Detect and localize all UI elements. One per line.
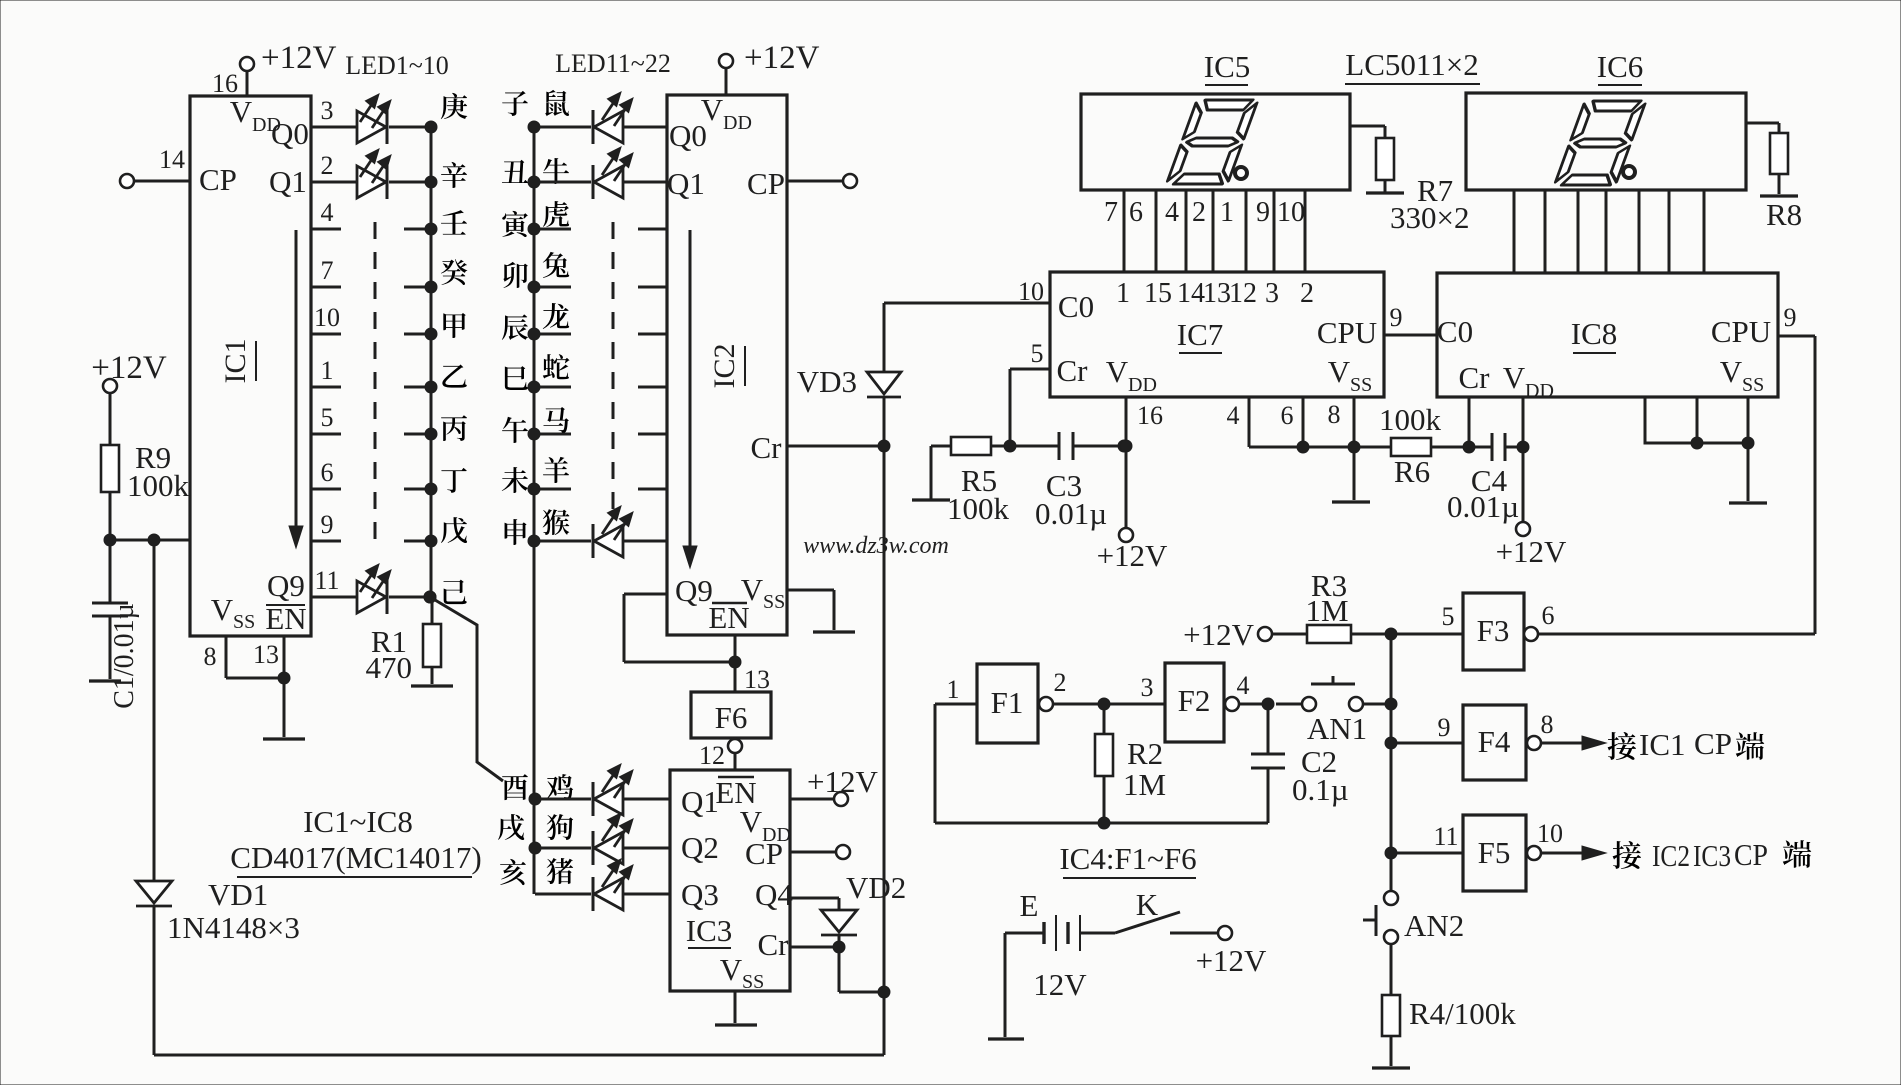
svg-text:4: 4	[1237, 671, 1250, 700]
node R9/C1 junction	[104, 534, 116, 546]
wire IC6 segment 4	[1605, 190, 1608, 273]
svg-text:13: 13	[1203, 278, 1231, 309]
wire IC2 Vss to ground	[787, 589, 834, 592]
power terminal +12V for IC2	[719, 54, 733, 68]
svg-text:V: V	[1720, 354, 1743, 389]
diode VD2	[821, 910, 857, 932]
svg-text:F5: F5	[1478, 835, 1511, 870]
svg-text:CD4017(MC14017): CD4017(MC14017)	[230, 840, 481, 875]
svg-text:LED1~10: LED1~10	[345, 51, 449, 80]
wire IC2 Q1 row with LED12	[528, 176, 540, 188]
label char 巳	[505, 366, 528, 390]
svg-text:IC1: IC1	[219, 339, 252, 384]
svg-text:+12V: +12V	[1183, 617, 1254, 652]
svg-text:4: 4	[1165, 197, 1179, 228]
wire col2 stub row y334	[528, 328, 540, 340]
svg-text:Q0: Q0	[271, 116, 309, 151]
svg-text:CP: CP	[199, 162, 237, 197]
svg-text:+12V: +12V	[807, 764, 878, 799]
svg-text:8: 8	[204, 642, 217, 671]
IC IC3 box	[670, 770, 790, 991]
wire F5 input	[1385, 847, 1397, 859]
label 接IC1 CP端	[1608, 732, 1636, 760]
svg-text:Q0: Q0	[669, 118, 707, 153]
svg-text:6: 6	[1281, 401, 1294, 430]
svg-text:9: 9	[321, 510, 334, 539]
svg-text:IC2: IC2	[708, 344, 741, 389]
svg-text:Q9: Q9	[267, 568, 305, 603]
svg-text:12: 12	[699, 741, 725, 770]
terminal F2 output	[1225, 697, 1239, 711]
IC1 pin8 pin13 to ground	[225, 636, 228, 678]
svg-text:DD: DD	[723, 112, 752, 134]
svg-text:Cr: Cr	[751, 430, 783, 465]
wire IC7 pin8	[1353, 397, 1356, 447]
svg-text:Q9: Q9	[675, 573, 713, 608]
svg-text:R8: R8	[1766, 197, 1802, 232]
svg-text:2: 2	[1192, 197, 1206, 228]
svg-text:0.1µ: 0.1µ	[1292, 772, 1349, 807]
svg-text:3: 3	[321, 96, 334, 125]
label char 虎	[543, 201, 569, 227]
svg-text:Cr: Cr	[1057, 353, 1089, 388]
svg-text:DD: DD	[1525, 380, 1554, 402]
label char 兔	[543, 252, 569, 278]
wire IC5 segment 5	[1245, 190, 1248, 272]
wire col2 stub row y387	[528, 381, 540, 393]
wire IC1 Q9 row with LED10	[311, 596, 357, 599]
wire IC6 segment 6	[1668, 190, 1671, 273]
terminal IC3 CP	[790, 851, 836, 854]
ground for IC3	[715, 1023, 757, 1026]
wire IC2 CP to terminal	[787, 180, 843, 183]
IC IC7 box	[1050, 272, 1384, 397]
wire IC5 segment 3	[1185, 190, 1188, 272]
svg-text:7: 7	[1104, 197, 1118, 228]
label char 蛇	[543, 354, 570, 379]
label char 寅	[502, 211, 528, 237]
svg-text:CP: CP	[1694, 726, 1732, 761]
arrow F4 to IC1 CP	[1541, 742, 1588, 745]
svg-text:2: 2	[1054, 668, 1067, 697]
svg-text:0.01µ: 0.01µ	[1035, 496, 1107, 531]
svg-text:100k: 100k	[127, 468, 190, 503]
ground for IC1	[263, 737, 305, 740]
wire IC3 Q1 row LED	[529, 793, 541, 805]
resistor R1 470	[424, 591, 436, 603]
svg-text:LC5011×2: LC5011×2	[1345, 47, 1478, 82]
svg-text:9: 9	[1438, 713, 1451, 742]
power terminal +12V IC8	[1516, 522, 1530, 536]
power terminal +12V IC7	[1119, 528, 1133, 542]
label char 卯	[503, 262, 527, 288]
wire Q9 to lower bus diagonal	[430, 597, 503, 781]
wire IC1 Q0 row with LED1	[311, 126, 357, 129]
svg-text:DD: DD	[1128, 374, 1157, 396]
svg-text:3: 3	[1141, 673, 1154, 702]
wire IC2 Q0 row with LED11	[528, 121, 540, 133]
svg-text:Q1: Q1	[681, 784, 719, 819]
ground for R5	[912, 498, 950, 501]
svg-text:IC7: IC7	[1177, 317, 1224, 352]
label char 己	[443, 580, 466, 604]
IC IC1 CD4017 box	[190, 96, 311, 636]
svg-text:16: 16	[1137, 401, 1163, 430]
svg-text:VD2: VD2	[846, 870, 906, 905]
gate F2 box	[1165, 663, 1224, 742]
ground for IC2	[813, 630, 855, 633]
power terminal +12V for R9	[103, 379, 117, 393]
svg-text:EN: EN	[265, 601, 306, 636]
wire monkey row with LED	[528, 535, 540, 547]
wire LED bus col2 vertical	[533, 127, 536, 894]
label char 辛	[441, 162, 467, 188]
wire IC3 Q2 row LED	[529, 842, 541, 854]
terminal F3 output	[1524, 627, 1538, 641]
resistor R2 1M	[1103, 704, 1106, 734]
svg-text:Q2: Q2	[681, 830, 719, 865]
svg-text:AN2: AN2	[1404, 908, 1464, 943]
svg-text:6: 6	[1129, 197, 1143, 228]
ground for IC8	[1729, 501, 1767, 504]
arrow sequence inside IC1	[295, 230, 298, 532]
gate F5 box	[1463, 815, 1526, 891]
wire IC1 stub row y387	[311, 386, 341, 389]
svg-text:SS: SS	[233, 611, 255, 633]
svg-text:F6: F6	[715, 700, 748, 735]
label char 牛	[543, 158, 569, 184]
wire col2 stub row y229	[528, 223, 540, 235]
ground for IC7 pin8	[1332, 500, 1370, 503]
wire IC3 Q4 to VD2	[790, 897, 839, 900]
svg-text:0.01µ: 0.01µ	[1447, 489, 1519, 524]
svg-text:V: V	[1328, 354, 1351, 389]
svg-text:F3: F3	[1477, 613, 1510, 648]
wire F3 input	[1391, 633, 1463, 636]
terminal F1 output	[1039, 697, 1053, 711]
svg-text:5: 5	[321, 403, 334, 432]
power terminal +12V for IC1 pin16	[240, 57, 254, 71]
svg-text:+12V: +12V	[261, 40, 337, 76]
capacitor C1 0.01u	[109, 540, 112, 603]
svg-text:12: 12	[1229, 278, 1257, 309]
capacitor C2 0.1u	[1267, 704, 1270, 754]
ground for C1	[89, 679, 121, 682]
arrow F5 to IC2 IC3 CP	[1541, 852, 1588, 855]
resistor R7 330	[1376, 138, 1394, 180]
wire to F2	[1104, 703, 1165, 706]
svg-text:IC1~IC8: IC1~IC8	[303, 804, 413, 839]
resistor R5 100k	[931, 445, 951, 448]
ground for R8	[1760, 194, 1798, 197]
wire IC5 segment 2	[1155, 190, 1158, 272]
label char 猴	[543, 509, 570, 535]
svg-text:1M: 1M	[1123, 767, 1166, 802]
svg-text:V: V	[741, 572, 764, 607]
svg-text:11: 11	[1433, 822, 1458, 851]
label char 丙	[441, 415, 467, 441]
svg-text:K: K	[1136, 887, 1159, 922]
wire IC2 Cr row	[787, 445, 884, 448]
label char 辰	[502, 314, 528, 340]
wire R5 to ground	[930, 446, 933, 499]
wire VD1 to bottom rail	[153, 906, 156, 1055]
wire IC1 stub row y287	[311, 286, 341, 289]
wire VD3 to Cr node	[883, 397, 886, 446]
wire IC1 Q1 row with LED2	[311, 181, 357, 184]
svg-text:3: 3	[1265, 278, 1279, 309]
display IC5 box	[1081, 94, 1350, 190]
wire IC5 segment 4	[1212, 190, 1215, 272]
svg-text:14: 14	[159, 145, 185, 174]
resistor R9 100k	[101, 445, 119, 492]
wire C0 horizontal	[884, 302, 1050, 305]
terminal F5 output	[1527, 846, 1541, 860]
svg-text:SS: SS	[763, 591, 785, 613]
svg-text:LED11~22: LED11~22	[555, 49, 671, 78]
svg-text:R2: R2	[1127, 736, 1163, 771]
svg-text:V: V	[211, 592, 234, 627]
svg-text:F2: F2	[1178, 683, 1211, 718]
resistor R3 1M	[1307, 625, 1351, 643]
svg-text:330×2: 330×2	[1390, 200, 1469, 235]
ground for R1	[411, 684, 453, 687]
svg-text:Cr: Cr	[758, 927, 790, 962]
wire F1 input	[935, 703, 977, 706]
lower bus chars	[502, 774, 528, 800]
resistor R6 100k	[1391, 438, 1431, 456]
digit 8 IC6	[1554, 101, 1646, 185]
node C3 VDD junction	[1118, 440, 1130, 452]
svg-text:13: 13	[253, 640, 279, 669]
ground for R7	[1366, 191, 1404, 194]
svg-text:E: E	[1020, 888, 1039, 923]
svg-text:470: 470	[366, 650, 413, 685]
svg-text:SS: SS	[1742, 374, 1764, 396]
wire IC8 Cr pin	[1468, 397, 1471, 447]
svg-text:SS: SS	[742, 971, 764, 993]
svg-text:7: 7	[321, 256, 334, 285]
label char 甲	[443, 313, 465, 338]
wire IC6 segment 2	[1544, 190, 1547, 273]
svg-text:10: 10	[314, 303, 340, 332]
svg-text:10: 10	[1277, 197, 1305, 228]
wire IC7 VDD pin16	[1125, 397, 1128, 446]
svg-text:1M: 1M	[1305, 593, 1348, 628]
wire IC3 Q3 row LED	[535, 893, 591, 896]
svg-text:9: 9	[1784, 303, 1797, 332]
label char 马	[543, 407, 568, 433]
svg-text:F1: F1	[991, 685, 1024, 720]
wire IC7 pin6	[1302, 397, 1305, 447]
svg-text:100k: 100k	[1379, 402, 1442, 437]
svg-text:+12V: +12V	[1496, 534, 1567, 569]
dashed LED bus col1	[374, 222, 377, 552]
svg-text:C1/0.01µ: C1/0.01µ	[109, 603, 140, 709]
gate F6 box	[691, 692, 771, 738]
svg-text:Q4: Q4	[755, 877, 793, 912]
label char 壬	[441, 210, 467, 234]
svg-text:14: 14	[1177, 278, 1205, 309]
wire IC3 Vss ground	[734, 991, 737, 1023]
wire IC5 segment 1	[1123, 190, 1126, 272]
svg-text:V: V	[1106, 354, 1129, 389]
svg-text:Q3: Q3	[681, 877, 719, 912]
resistor R8 330	[1770, 133, 1788, 174]
svg-text:V: V	[720, 952, 743, 987]
terminal F6 pin12	[728, 739, 742, 753]
arrow sequence inside IC2	[689, 230, 692, 552]
svg-text:Cr: Cr	[1459, 360, 1491, 395]
wire pin8 ground	[1353, 447, 1356, 500]
IC IC2 box	[667, 95, 787, 635]
svg-text:IC8: IC8	[1571, 316, 1618, 351]
resistor R4 100k	[1390, 944, 1393, 995]
label char 子	[502, 91, 528, 116]
svg-text:1: 1	[321, 356, 334, 385]
wire IC1 stub row y541	[311, 540, 341, 543]
svg-text:SS: SS	[1350, 374, 1372, 396]
label char 午	[502, 417, 528, 443]
wire C0 net corner	[883, 303, 886, 372]
svg-text:VD1: VD1	[208, 877, 268, 912]
svg-text:CPU: CPU	[1317, 315, 1377, 350]
svg-text:1: 1	[1220, 197, 1234, 228]
gate F4 box	[1463, 705, 1526, 780]
svg-text:CP: CP	[745, 836, 783, 871]
svg-text:1: 1	[1116, 278, 1130, 309]
svg-text:Q1: Q1	[667, 166, 705, 201]
terminal F4 output	[1527, 736, 1541, 750]
svg-text:IC4:F1~F6: IC4:F1~F6	[1059, 841, 1196, 876]
wire IC5 segment 6	[1273, 190, 1276, 272]
wire middle vertical	[883, 446, 886, 992]
label 接 IC2 IC3 CP端	[1613, 841, 1641, 869]
svg-text:1: 1	[947, 675, 960, 704]
svg-text:+12V: +12V	[91, 350, 167, 386]
svg-text:10: 10	[1018, 277, 1044, 306]
wire IC2 Q9 loop	[624, 593, 667, 596]
wire IC6 segment 7	[1703, 190, 1706, 273]
svg-text:VD3: VD3	[797, 364, 857, 399]
svg-text:www.dz3w.com: www.dz3w.com	[803, 533, 949, 559]
svg-text:9: 9	[1390, 303, 1403, 332]
svg-text:5: 5	[1442, 602, 1455, 631]
svg-text:IC6: IC6	[1597, 49, 1644, 84]
svg-text:C0: C0	[1437, 314, 1473, 349]
svg-text:V: V	[1503, 360, 1526, 395]
button AN1	[1276, 703, 1301, 706]
label char 癸	[441, 259, 467, 285]
diode VD3	[867, 372, 901, 394]
ground for R4	[1372, 1066, 1410, 1069]
ground for battery	[988, 1037, 1024, 1040]
svg-text:C0: C0	[1058, 289, 1094, 324]
svg-text:4: 4	[321, 198, 334, 227]
svg-text:IC1: IC1	[1639, 727, 1686, 762]
svg-text:CPU: CPU	[1711, 314, 1771, 349]
svg-text:V: V	[740, 804, 763, 839]
svg-text:13: 13	[744, 665, 770, 694]
svg-text:F4: F4	[1478, 724, 1511, 759]
svg-text:IC3: IC3	[686, 913, 733, 948]
svg-text:2: 2	[1300, 278, 1314, 309]
wire IC5 to R7	[1350, 125, 1385, 128]
svg-text:CP: CP	[1734, 837, 1768, 872]
label char 鼠	[545, 90, 569, 116]
wire IC7 pins to R6	[1249, 446, 1391, 449]
wire IC1 stub row y489	[311, 488, 341, 491]
wire IC6 segment 5	[1638, 190, 1641, 273]
label char 丑	[502, 160, 528, 183]
IC IC8 box	[1437, 273, 1778, 397]
svg-text:8: 8	[1328, 400, 1341, 429]
svg-text:2: 2	[321, 151, 334, 180]
svg-text:8: 8	[1541, 710, 1554, 739]
wire IC1 stub row y334	[311, 333, 341, 336]
wire IC7 pin4	[1248, 397, 1251, 447]
wire VD1 branch	[153, 540, 156, 881]
wire IC8 VDD pin	[1522, 397, 1525, 447]
switch K	[1080, 932, 1115, 935]
svg-text:1N4148×3: 1N4148×3	[167, 910, 300, 945]
wire AN1 node vertical	[1390, 634, 1393, 898]
svg-text:Q1: Q1	[269, 164, 307, 199]
wire F1 feedback rail	[935, 822, 1268, 825]
wire F4 input	[1385, 737, 1397, 749]
svg-text:15: 15	[1144, 278, 1172, 309]
capacitor C3 0.01u	[1010, 445, 1059, 448]
svg-text:12V: 12V	[1033, 967, 1087, 1002]
gate F3 box	[1463, 593, 1524, 670]
svg-text:4: 4	[1227, 401, 1240, 430]
digit 8 IC5	[1166, 100, 1258, 184]
svg-text:IC3: IC3	[1693, 838, 1731, 873]
svg-text:R6: R6	[1394, 454, 1430, 489]
wire Cr branch to main vertical	[838, 947, 841, 992]
wire IC7 Cr pin5	[1009, 369, 1012, 446]
svg-text:100k: 100k	[947, 491, 1010, 526]
wire IC6 segment 1	[1513, 190, 1516, 273]
svg-text:+12V: +12V	[1097, 538, 1168, 573]
label char 戊	[441, 517, 467, 543]
svg-text:IC2: IC2	[1652, 838, 1690, 873]
svg-text:6: 6	[1542, 601, 1555, 630]
power terminal +12V R3	[1258, 627, 1272, 641]
label char 庚	[441, 93, 467, 119]
wire col2 stub row y489	[528, 483, 540, 495]
label char 丁	[441, 468, 466, 493]
wire IC8 CPU out	[1778, 335, 1815, 338]
label char 申	[505, 519, 527, 545]
power terminal +12V IC3	[790, 798, 834, 801]
label char 乙	[442, 365, 466, 388]
wire bottom rail	[154, 1054, 884, 1057]
wire IC6 to R8	[1746, 122, 1779, 125]
svg-text:IC5: IC5	[1204, 49, 1251, 84]
svg-text:V: V	[230, 94, 253, 129]
wire IC1 stub row y434	[311, 433, 341, 436]
diode VD1	[136, 881, 172, 903]
svg-text:R4/100k: R4/100k	[1409, 996, 1516, 1031]
wire IC1 stub row y229	[311, 228, 341, 231]
wire col2 stub row y434	[528, 428, 540, 440]
button AN2	[1384, 891, 1398, 905]
svg-text:+12V: +12V	[1196, 943, 1267, 978]
dashed LED bus col2	[612, 222, 615, 512]
wire IC8 ground pins	[1645, 397, 1748, 443]
wire VD2 to Cr	[838, 935, 841, 947]
